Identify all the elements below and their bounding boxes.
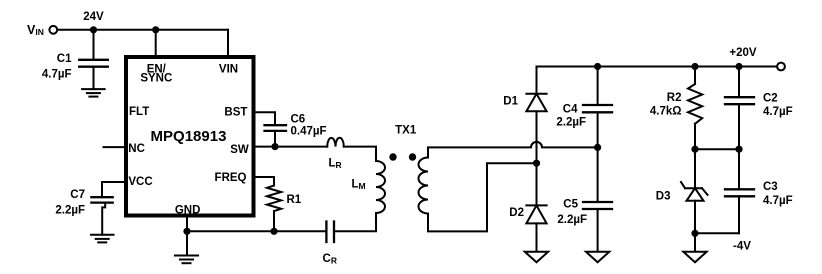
inductor LM (352, 161, 386, 213)
diode D3 zener (656, 182, 708, 203)
junction SW node (271, 143, 278, 150)
wire C1 bottom (93, 67, 95, 89)
transformer phasing dot left (389, 153, 396, 160)
svg-text:SW: SW (230, 144, 249, 156)
terminal +20V (777, 63, 785, 71)
wire C5 bottom (597, 209, 599, 252)
wire secondary bottom (428, 163, 537, 231)
wire C2 top (738, 67, 740, 98)
svg-text:C7: C7 (70, 189, 85, 201)
diode D2 (509, 205, 546, 223)
wire C1 top (93, 30, 95, 60)
transformer secondary winding (419, 158, 429, 214)
wire D3 bottom (694, 201, 696, 234)
svg-text:2.2µF: 2.2µF (55, 205, 85, 217)
wire C2 bottom (738, 104, 740, 149)
wire ground drop D3 (694, 233, 696, 252)
svg-text:R2: R2 (667, 92, 682, 104)
svg-text:-4V: -4V (733, 241, 751, 253)
svg-text:4.7kΩ: 4.7kΩ (650, 106, 682, 118)
wire C5 top (597, 147, 599, 202)
wire R2 bottom (694, 124, 696, 149)
capacitor C4 (556, 104, 612, 129)
wire VIN pin (227, 30, 229, 56)
capacitor CR (323, 222, 337, 266)
wire GND drop (186, 231, 188, 255)
capacitor C7 (55, 189, 112, 217)
ground C1 (82, 89, 105, 97)
wire input rail (58, 29, 228, 31)
svg-text:LR: LR (329, 158, 342, 171)
wire R2 top (694, 67, 696, 85)
svg-text:MPQ18913: MPQ18913 (151, 128, 227, 145)
transformer phasing dot right (409, 153, 416, 160)
pin EN/SYNC (140, 63, 172, 84)
junction R2 D3 mid (691, 146, 698, 153)
wire secondary top with hop (428, 142, 598, 158)
junction R2 top (691, 63, 698, 70)
ground C5 (586, 252, 609, 262)
svg-text:C1: C1 (57, 53, 72, 65)
svg-text:C5: C5 (563, 199, 578, 211)
wire R1 bottom (273, 211, 275, 231)
wire GND pin (186, 216, 188, 232)
svg-text:C2: C2 (763, 92, 778, 104)
resistor R1 (267, 186, 302, 212)
ground D2 (525, 252, 548, 262)
junction C2 C3 mid (735, 146, 742, 153)
wire D2 anode (536, 223, 538, 251)
ground C7 (91, 235, 114, 243)
svg-text:D3: D3 (656, 191, 671, 203)
wire C3 top (738, 149, 740, 189)
inductor LR (327, 138, 344, 170)
junction C4 C5 mid (594, 144, 601, 151)
svg-text:D2: D2 (509, 207, 524, 219)
wire C4 bottom (597, 112, 599, 147)
ground IC (175, 256, 198, 264)
wire CR to LM (334, 213, 376, 231)
wire NC stub (104, 146, 127, 148)
wire EN SYNC pin (155, 30, 157, 56)
svg-text:2.2µF: 2.2µF (557, 214, 587, 226)
wire BST to C6 (254, 112, 276, 125)
wire D3 top (694, 149, 696, 188)
capacitor C2 (725, 92, 793, 118)
svg-text:4.7µF: 4.7µF (763, 195, 793, 207)
svg-text:SYNC: SYNC (140, 73, 172, 85)
svg-text:4.7µF: 4.7µF (42, 69, 72, 81)
capacitor C3 (725, 181, 793, 207)
junction C4 top (594, 63, 601, 70)
svg-text:VIN: VIN (27, 23, 44, 37)
svg-text:BST: BST (224, 107, 247, 119)
svg-text:TX1: TX1 (395, 125, 417, 137)
capacitor C6 (265, 114, 327, 138)
wire D2 cathode (536, 163, 538, 205)
svg-text:2.2µF: 2.2µF (556, 117, 586, 129)
svg-text:24V: 24V (83, 11, 104, 23)
wire mid rail (695, 148, 739, 150)
svg-text:R1: R1 (287, 194, 302, 206)
wire LR to LM (344, 147, 376, 161)
svg-text:FREQ: FREQ (215, 172, 247, 184)
svg-text:C3: C3 (763, 181, 778, 193)
IC MPQ18913 (126, 57, 254, 216)
diode D1 (503, 94, 546, 111)
svg-text:D1: D1 (503, 96, 518, 108)
svg-text:LM: LM (352, 179, 366, 192)
svg-text:4.7µF: 4.7µF (763, 106, 793, 118)
wire bottom rail (187, 230, 326, 232)
svg-text:0.47µF: 0.47µF (291, 126, 327, 138)
wire C6 to SW node (274, 131, 276, 147)
wire -4V rail (695, 232, 739, 234)
wire C3 bottom (738, 196, 740, 233)
junction C2 top (735, 63, 742, 70)
svg-text:FLT: FLT (129, 106, 149, 118)
svg-text:VCC: VCC (128, 176, 152, 188)
wire FREQ to R1 (254, 177, 275, 186)
terminal VIN (49, 26, 57, 34)
junction D1 D2 node (533, 160, 540, 167)
resistor R2 (650, 84, 702, 124)
svg-text:NC: NC (128, 143, 145, 155)
wire C7 bottom (102, 203, 105, 235)
ground -4V (683, 252, 706, 262)
wire SW (254, 146, 328, 148)
junction -4V rail (691, 230, 698, 237)
wire D1 anode (536, 111, 538, 163)
junction R1 bottom (270, 228, 277, 235)
junction EN tap (152, 26, 159, 33)
capacitor C1 (42, 53, 108, 81)
wire D1 cathode (536, 67, 538, 94)
wire C4 top (597, 67, 599, 106)
junction C1 tap (90, 26, 97, 33)
capacitor C5 (557, 199, 612, 227)
svg-text:C6: C6 (291, 114, 306, 126)
svg-text:CR: CR (323, 253, 337, 266)
wire +20V rail (537, 66, 777, 68)
junction GND rail (183, 228, 190, 235)
svg-text:+20V: +20V (729, 47, 757, 59)
svg-text:VIN: VIN (219, 64, 238, 76)
wire VCC to C7 (102, 182, 126, 197)
svg-text:C4: C4 (563, 104, 578, 116)
